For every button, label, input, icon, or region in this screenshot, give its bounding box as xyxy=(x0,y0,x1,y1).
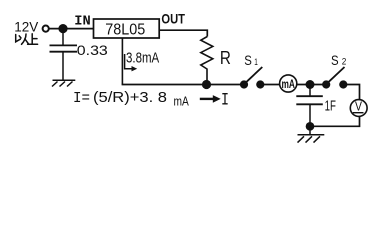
label 以上 (kanji: "or more") xyxy=(16,34,38,45)
ground GND1 xyxy=(52,80,75,86)
svg-text:2: 2 xyxy=(342,56,347,66)
switch S1 contact b xyxy=(256,80,264,88)
switch S1 blade xyxy=(246,67,262,82)
svg-text:S: S xyxy=(244,53,252,68)
svg-text:R: R xyxy=(220,48,231,68)
svg-text:V: V xyxy=(355,100,363,114)
wire voltmeter bottom to node xyxy=(310,116,360,126)
svg-text:1: 1 xyxy=(254,57,258,67)
wire input xyxy=(49,28,94,30)
svg-text:IN: IN xyxy=(74,13,91,29)
svg-text:mA: mA xyxy=(282,77,296,91)
svg-text:mA: mA xyxy=(174,94,190,109)
junction: bottom ground node xyxy=(306,122,315,131)
current arrow I xyxy=(200,98,214,100)
switch S2 blade xyxy=(328,67,344,82)
resistor R zigzag xyxy=(201,37,213,85)
wire ammeter to S2 xyxy=(297,84,326,86)
wire S1 to ammeter xyxy=(260,84,279,86)
regulator U1 78L05 box xyxy=(94,19,160,38)
wire bottom rail (gnd pin to S1) xyxy=(122,84,244,86)
svg-text:(5/R)+3. 8: (5/R)+3. 8 xyxy=(93,90,167,106)
voltmeter V xyxy=(350,100,367,117)
svg-text:I=: I= xyxy=(73,90,90,107)
voltmeter DC underline xyxy=(353,112,364,114)
switch S2 contact a xyxy=(322,80,330,88)
switch S1 contact a xyxy=(240,80,248,88)
svg-text:0.33: 0.33 xyxy=(77,43,108,58)
capacitor C2 lead top xyxy=(309,85,311,97)
junction: load node xyxy=(306,80,315,89)
capacitor C2 1F plates xyxy=(296,95,323,97)
junction: resistor bottom node xyxy=(202,80,211,89)
junction: input node xyxy=(58,24,67,33)
wire output from box to resistor xyxy=(159,30,207,36)
svg-text:12V: 12V xyxy=(14,20,39,35)
svg-text:78L05: 78L05 xyxy=(105,21,145,38)
ammeter mA xyxy=(280,75,297,92)
svg-text:1F: 1F xyxy=(325,97,336,114)
regulator GND pin wire xyxy=(121,38,123,85)
wire S2 to voltmeter xyxy=(343,85,359,100)
ground GND2 xyxy=(298,135,325,143)
capacitor C1 0.33 plates xyxy=(50,44,78,46)
svg-text:3.8mA: 3.8mA xyxy=(126,51,159,67)
wire node to ground xyxy=(309,126,311,134)
capacitor C1 lead top xyxy=(62,29,64,46)
svg-text:S: S xyxy=(331,53,339,68)
terminal: 12V input xyxy=(43,26,49,32)
svg-text:OUT: OUT xyxy=(161,11,185,26)
current arrow 3.8mA (bent down-right) xyxy=(125,54,134,69)
capacitor C1 lead bottom xyxy=(62,52,64,80)
capacitor C2 lead bottom xyxy=(309,104,311,126)
switch S2 contact b xyxy=(339,80,347,88)
svg-text:I: I xyxy=(221,90,229,110)
